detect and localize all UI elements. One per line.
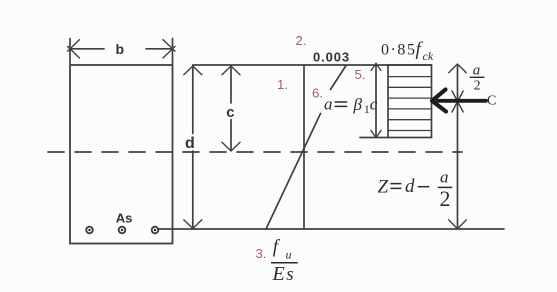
svg-text:E: E	[272, 263, 285, 285]
svg-text:0·85: 0·85	[381, 42, 417, 59]
svg-text:2: 2	[440, 186, 451, 211]
svg-text:2: 2	[474, 79, 481, 94]
svg-text:s: s	[286, 264, 293, 285]
svg-text:c: c	[226, 104, 234, 121]
svg-text:b: b	[116, 41, 125, 57]
svg-text:f: f	[273, 237, 281, 258]
svg-text:0.003: 0.003	[313, 50, 350, 65]
svg-text:d: d	[405, 176, 415, 197]
svg-text:β: β	[353, 95, 363, 114]
svg-text:ck: ck	[423, 49, 434, 63]
svg-text:a: a	[473, 63, 481, 79]
svg-text:3.: 3.	[256, 246, 267, 261]
svg-text:c: c	[370, 95, 378, 114]
svg-text:2.: 2.	[296, 33, 307, 48]
svg-text:Z: Z	[378, 177, 389, 198]
svg-text:1.: 1.	[277, 77, 288, 92]
svg-text:6.: 6.	[312, 86, 323, 101]
svg-text:As: As	[116, 211, 133, 226]
svg-text:a: a	[324, 95, 333, 114]
svg-text:a: a	[440, 168, 449, 187]
svg-text:d: d	[185, 135, 195, 152]
svg-text:5.: 5.	[355, 67, 366, 82]
svg-text:u: u	[286, 247, 292, 261]
svg-text:C: C	[487, 94, 496, 109]
